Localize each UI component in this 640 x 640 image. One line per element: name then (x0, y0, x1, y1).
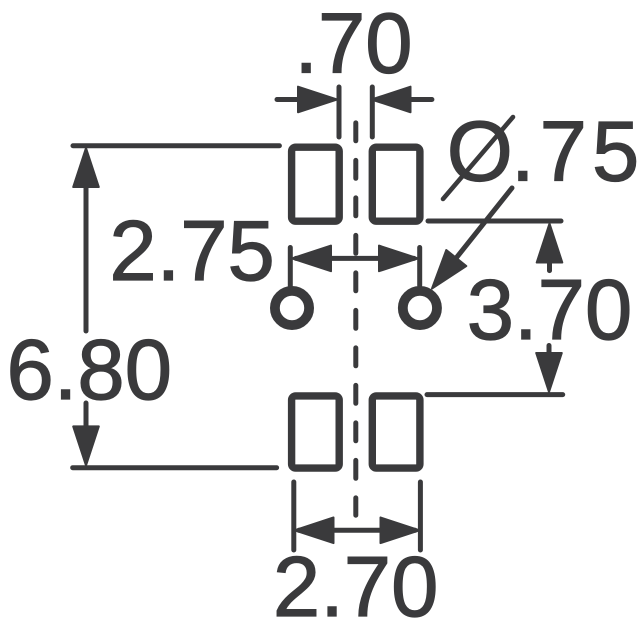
dim 6.80 top arrowhead (73, 148, 99, 187)
diameter slash through O (443, 117, 513, 199)
svg-text:3.70: 3.70 (467, 263, 632, 358)
dim 2.75 right arrowhead (379, 246, 418, 272)
dim 6.80 bottom arrowhead (73, 426, 99, 465)
pad P1 top-left (292, 147, 340, 221)
dim 2.70 right arrowhead (381, 518, 420, 544)
dim 3.70 lower stem (547, 346, 552, 358)
hole H2 right circle (403, 291, 437, 325)
dim 2.70 left extension line (291, 482, 296, 550)
dim 2.75 shaft (296, 256, 414, 261)
svg-text:.75: .75 (511, 105, 639, 200)
dim 2.75 left extension line (288, 248, 293, 286)
pad P3 bottom-left (292, 396, 340, 468)
dim 3.70 upper arrowhead (537, 224, 563, 263)
dim .70 left extension line (337, 87, 342, 137)
pad P2 top-right (372, 147, 420, 221)
dim 2.75 right extension line (417, 248, 422, 286)
dim 6.80 vertical upper segment (84, 180, 89, 331)
dim .70 right extension line (370, 87, 375, 137)
dim 2.70 right extension line (418, 482, 423, 550)
svg-text:2.75: 2.75 (109, 204, 274, 299)
pad P4 bottom-right (372, 396, 420, 468)
dim .70 right arrow tail (409, 97, 432, 102)
dim .70 right arrowhead (372, 87, 411, 113)
dim 6.80 vertical lower segment (84, 403, 89, 432)
dim 2.75 left arrowhead (292, 246, 331, 272)
dim 6.80 bottom extension line (73, 465, 277, 470)
svg-text:2.70: 2.70 (273, 540, 438, 635)
dim 3.70 upper stem (547, 255, 552, 271)
svg-text:6.80: 6.80 (7, 323, 172, 418)
dim 3.70 top extension line (428, 219, 561, 224)
leader line for hole diameter (451, 188, 512, 265)
leader arrowhead (432, 250, 466, 289)
hole H1 left circle (275, 291, 309, 325)
dim 6.80 top extension line (73, 143, 279, 148)
dim 3.70 bottom extension line (427, 392, 563, 397)
dim .70 left arrowhead (298, 87, 337, 113)
centerline (vertical dashed) (353, 123, 358, 515)
dim 2.70 shaft (299, 528, 415, 533)
svg-text:.70: .70 (294, 0, 412, 92)
dim .70 left arrow tail (277, 97, 301, 102)
dim 3.70 lower arrowhead (536, 353, 562, 392)
dim 2.70 left arrowhead (295, 518, 334, 544)
